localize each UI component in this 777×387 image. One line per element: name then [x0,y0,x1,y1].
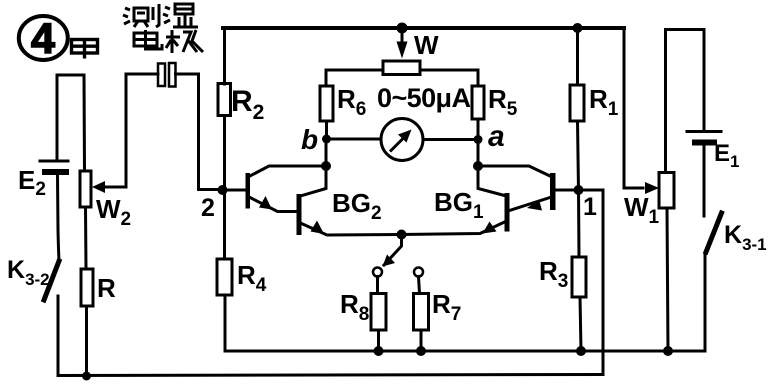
wire node1 to R3 [577,190,581,257]
transistor BG1 T2 bar [505,193,510,232]
wire BG1 collector T2 [478,166,505,196]
wire a down to collector node [477,140,480,167]
wire meter to a [423,138,478,141]
resistor R6 [320,86,333,121]
potentiometer W2 body [80,171,91,207]
junction dot a [474,135,483,144]
wire R2 to node 2 [223,116,226,191]
switch contact circle c2 [414,268,423,277]
badge circle 4 [19,16,68,60]
wire bottom rail B [58,296,603,376]
svg-text:4: 4 [31,15,55,63]
wire R6 to b [325,121,328,139]
junction dot b [322,135,331,144]
junction dot node 1 [574,185,584,195]
junction dot R8 bottom [374,346,384,356]
wire BG1 collector T1 [478,166,551,177]
resistor R1 [570,85,584,121]
switch K3-1 lever [706,213,722,252]
wire W1 bottom [667,208,668,351]
junction dot W wiper [397,23,408,34]
wire R8 to bottom rail [377,330,380,351]
wire b to meter [327,138,382,141]
arrowhead W2 wiper left [92,181,105,193]
wire E1 to K3-1 [703,145,706,216]
battery E1 long plate [687,130,721,133]
wire base node2 to BG2 [223,189,246,192]
switch contact circle c1 [373,268,382,277]
wire R7 to bottom rail [420,330,423,351]
potentiometer W1 body [659,173,674,209]
svg-text:R: R [97,273,116,303]
arrowhead BG1 T1 emitter [527,200,542,211]
svg-text:1: 1 [583,193,597,221]
svg-text:0~50μA: 0~50μA [377,83,471,113]
junction dot common emitter [397,230,407,240]
arrowhead R8 selector lever [383,255,396,267]
wire W left [326,70,383,86]
hanzi ji [166,30,203,53]
wire BG1 emitter T2 [402,222,505,235]
battery E2 long plate [40,160,68,163]
transistor BG2 T1 bar [246,173,251,209]
resistor R5 [472,86,484,119]
battery E2 short plate [45,169,66,175]
wire E2 to K3-2 [58,175,60,260]
wire BG1 emitter T1 [510,198,551,211]
wire W2 to R [84,207,88,269]
wire E2 W2 top bridge [57,75,85,171]
wire BG1 base to node 1 [556,189,579,192]
arrowhead BG2 T2 emitter [311,221,325,235]
junction dot R1 top [573,23,583,33]
meter needle [390,135,407,152]
hanzi shi [163,4,198,27]
wire W1 feed from rail [624,28,643,188]
electrode capacitor plate 2 [169,63,176,87]
wire node1 to right drop [579,190,604,375]
wire BG2 collector T1 [249,166,326,177]
wire c1 to R8 [376,277,379,294]
wire c2 to R7 [419,277,420,294]
junction dot b collector [321,161,331,171]
junction dot a collector [473,161,483,171]
electrode capacitor plate 1 [158,64,165,87]
transistor BG1 T1 bar [550,173,556,210]
wire W wiper [401,28,404,45]
wire top rail [223,26,624,30]
hanzi dian [134,30,162,49]
wire BG2 emitter T1 [250,198,296,212]
svg-text:2: 2 [201,194,215,222]
junction dot R bottom [82,372,91,381]
resistor R [81,269,93,306]
svg-text:a: a [488,120,505,153]
electrode capacitor left wire [104,74,158,187]
hanzi jia [72,40,98,59]
wire R1 to node1 [578,121,579,190]
wire BG2 emitter T2 [302,224,402,236]
wire W right [420,70,478,86]
arrowhead W1 wiper right [645,182,659,194]
resistor R7 [414,294,429,331]
hanzi ce [123,4,159,27]
potentiometer W body [383,61,420,75]
electrode capacitor right wire [176,74,223,190]
junction dot R7 bottom [416,346,426,356]
meter needle arrowhead [398,130,412,143]
svg-text:W: W [414,30,439,60]
wire W1 top to E1 top [666,30,705,173]
wire R5 to a [477,119,480,140]
switch K3-2 lever [44,261,59,300]
switch lever R8 selector [384,236,402,265]
resistor R8 [371,294,386,331]
arrowhead W wiper down [397,42,408,59]
meter galvanometer [381,119,423,161]
junction dot R3 bottom [576,346,586,356]
resistor R3 [572,257,586,297]
wire R2 column upper [223,28,226,84]
wire bottom rail A [225,254,705,351]
junction dot W1 bottom [663,346,673,356]
svg-text:b: b [301,124,318,155]
junction dot node 2 [218,185,228,195]
wire b down to collector node [325,139,328,166]
resistor R2 [218,84,231,116]
wire R to bottom rail [85,306,88,376]
wire R1 column [576,28,579,85]
wire R3 to bottom rail [580,297,581,351]
wire node2 to R4 [223,190,226,259]
wire R4 to bottom rail [224,295,227,351]
wire BG2 collector T2 [302,166,326,196]
battery E1 short plate [695,140,714,146]
transistor BG2 T2 bar [297,194,302,235]
arrowhead BG2 T1 emitter [259,196,272,210]
arrowhead BG1 T2 emitter [483,222,497,234]
resistor R4 [217,259,232,295]
